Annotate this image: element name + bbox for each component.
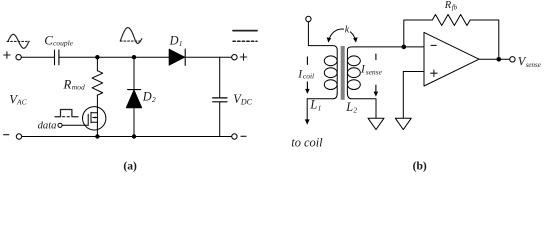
wire node2 to D1 anode: [134, 56, 169, 58]
junction node output: [497, 57, 502, 62]
wire terminal to C_couple: [21, 56, 54, 58]
svg-text:D: D: [169, 33, 179, 47]
arrow to coil: [305, 119, 310, 124]
svg-text:(a): (a): [123, 159, 137, 172]
svg-text:sense: sense: [366, 67, 383, 76]
svg-text:DC: DC: [240, 97, 253, 106]
label D2: [142, 90, 156, 105]
transistor Q1 (NMOS modulator): [83, 107, 106, 130]
capacitor C_couple: [55, 50, 59, 65]
label V_DC: [233, 92, 252, 106]
wire op-amp output: [479, 58, 510, 60]
wire C_couple to node 1: [59, 56, 97, 58]
svg-text:(b): (b): [413, 160, 427, 173]
ground (L2): [368, 118, 384, 129]
label k: [344, 24, 350, 35]
AC sine waveform icon (input): [7, 34, 29, 48]
minus label (V_DC -): [241, 135, 246, 137]
terminal + (V_DC): [232, 55, 237, 60]
resistor R_mod: [92, 71, 103, 96]
svg-text:R: R: [444, 0, 452, 11]
wire top rail down to output capacitor: [219, 57, 221, 97]
junction node 4 (D2 on bottom rail): [132, 134, 136, 138]
gate wire from data terminal: [62, 124, 88, 126]
svg-text:to coil: to coil: [291, 135, 323, 149]
svg-text:D: D: [142, 90, 152, 104]
svg-text:data: data: [38, 120, 57, 131]
current arrow I_coil: [305, 82, 310, 94]
ground (op-amp +): [395, 118, 411, 129]
terminal - (V_DC): [232, 134, 237, 139]
label D1: [169, 33, 183, 48]
wire node1 to node2: [97, 56, 134, 58]
wire R_mod to MOSFET drain: [96, 95, 98, 106]
op-amp U1: [424, 32, 479, 86]
feedback wire up from inverting node: [404, 20, 433, 47]
wire L2 top to op-amp inverting input: [347, 47, 424, 50]
wire MOSFET source to bottom rail: [96, 130, 98, 137]
wire L2 bottom to ground: [347, 93, 376, 118]
wire op-amp noninverting input to ground: [403, 72, 424, 118]
terminal data: [58, 123, 62, 127]
label V_AC: [9, 92, 27, 106]
clipped-sine waveform icon (modulated): [120, 28, 142, 44]
svg-text:coil: coil: [303, 72, 314, 81]
plus label (V_DC +): [240, 54, 246, 60]
feedback wire down to output: [470, 20, 498, 59]
inductor L1: [324, 50, 337, 93]
inductor L2: [347, 50, 360, 93]
label L2: [345, 100, 357, 115]
label I_sense: [360, 63, 383, 77]
terminal + (V_AC): [16, 55, 21, 60]
op-amp minus pin label: [431, 44, 436, 46]
terminal - (V_AC): [16, 134, 21, 139]
svg-text:1: 1: [179, 39, 183, 48]
svg-text:mod: mod: [72, 83, 85, 92]
svg-text:fb: fb: [452, 4, 458, 12]
wire capacitor to bottom rail: [219, 102, 221, 137]
wire D1 cathode to + terminal: [185, 56, 232, 58]
svg-text:R: R: [63, 78, 72, 92]
svg-text:C: C: [44, 32, 53, 47]
label V_sense: [518, 54, 541, 69]
resistor R_fb: [432, 15, 470, 26]
junction node 3 (source on bottom rail): [95, 134, 99, 138]
current tick I_sense: [375, 54, 377, 60]
svg-text:L: L: [345, 100, 353, 114]
diode D1: [169, 49, 185, 65]
wire node1 down to R_mod: [96, 57, 98, 70]
label R_fb: [444, 0, 458, 12]
label C_couple: [44, 32, 73, 47]
svg-text:2: 2: [152, 95, 156, 104]
junction node 1 (top of R_mod): [95, 55, 99, 59]
svg-text:sense: sense: [526, 61, 541, 69]
svg-text:AC: AC: [16, 97, 28, 106]
minus label (V_AC -): [4, 134, 9, 136]
label L1: [309, 98, 321, 113]
svg-text:L: L: [309, 98, 317, 112]
transformer core: [341, 46, 345, 100]
current tick I_coil: [306, 57, 308, 65]
wire L1 bottom to coil: [307, 93, 337, 121]
op-amp plus pin label: [431, 70, 437, 76]
wire node2 down to D2 cathode: [133, 57, 135, 89]
svg-text:k: k: [345, 24, 350, 35]
current arrow I_sense: [374, 85, 379, 96]
terminal input (b): [306, 16, 311, 21]
svg-text:1: 1: [318, 103, 322, 112]
terminal V_sense: [510, 57, 515, 62]
label I_coil: [297, 67, 314, 80]
junction node feedback: [402, 45, 407, 50]
wire D2 anode to bottom rail: [133, 108, 135, 137]
svg-text:2: 2: [353, 105, 357, 114]
junction node 2 (top of D2): [132, 55, 136, 59]
pulse waveform icon (data): [55, 110, 78, 117]
coupling arc k: [327, 29, 358, 43]
wire terminal to L1 top: [308, 22, 337, 50]
plus label (V_AC +): [4, 52, 10, 58]
DC level waveform icon: [233, 31, 257, 42]
bottom rail wire: [22, 136, 232, 138]
label R_mod: [63, 78, 85, 92]
svg-text:couple: couple: [53, 38, 74, 47]
capacitor C_out (V_DC): [213, 98, 227, 102]
diode D2: [126, 90, 141, 108]
